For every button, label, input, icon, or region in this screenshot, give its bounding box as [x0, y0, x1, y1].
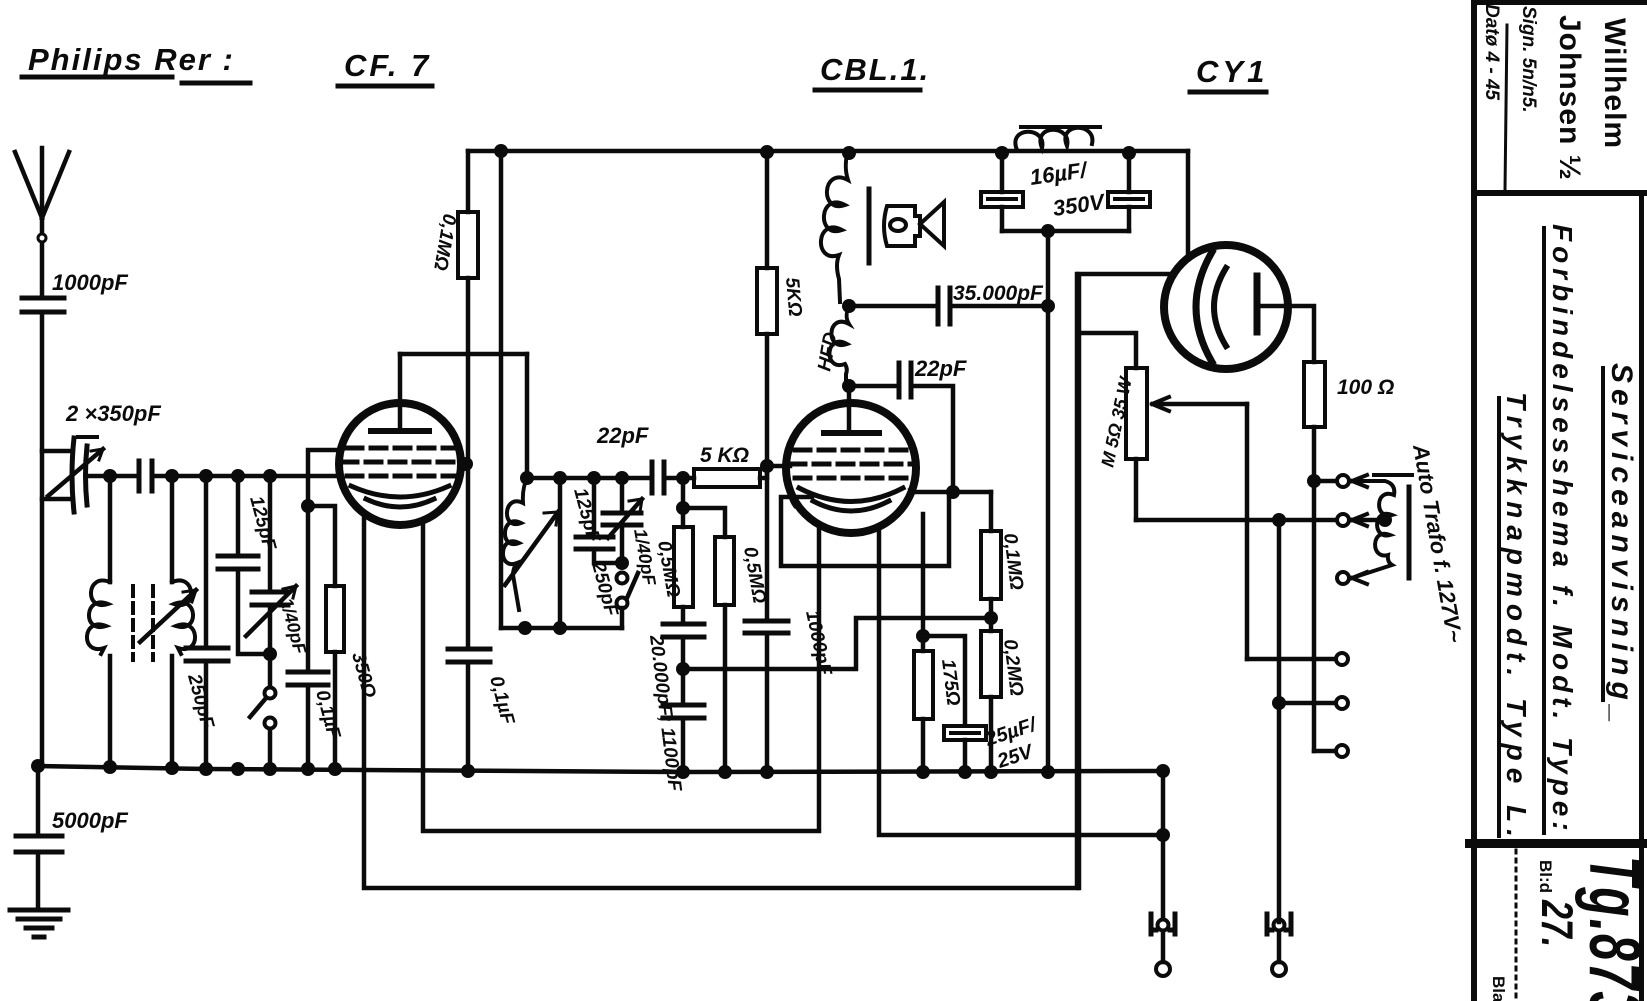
label Philips Rer: [28, 42, 235, 77]
label 2x350pF [65, 401, 161, 426]
node AVC [676, 662, 690, 676]
capacitor 16uF right [1108, 153, 1150, 231]
label CBL1 [820, 52, 930, 87]
coil antenna secondary variable [140, 476, 196, 766]
capacitor 1100pF [663, 705, 704, 771]
text Bla corner [1489, 976, 1508, 1001]
terminal out3 [1336, 745, 1348, 757]
title block divider 1 [1471, 190, 1647, 196]
tube CF7 [339, 403, 461, 525]
text Forbindelsesshema [1547, 224, 1578, 836]
potentiometer 800ohm 35W [1097, 368, 1147, 520]
wire CBL1 cathode [921, 514, 926, 636]
wire chassis to jack left [1161, 771, 1166, 916]
wire CF7 cathode [308, 450, 340, 506]
wire wiper to terminal [1247, 657, 1335, 662]
underline CF.7 [338, 84, 432, 89]
wire heater CBL1 b [879, 526, 1163, 835]
tube CY1 [1164, 245, 1288, 369]
wire 100ohm to tap [1307, 474, 1335, 488]
underline Serviceanvisning [1601, 368, 1605, 700]
resistor 0,5Mohm first [653, 478, 693, 624]
resistor 5Kohm anode [757, 154, 805, 466]
capacitor 5000pF [16, 766, 128, 908]
antenna [15, 148, 69, 296]
title block frame vertical [1471, 0, 1477, 1001]
terminal tap top [1337, 475, 1349, 487]
svg-text:100 Ω: 100 Ω [1337, 376, 1394, 399]
svg-text:22pF: 22pF [914, 356, 967, 381]
svg-text:1000pF: 1000pF [52, 270, 128, 295]
tube CBL1 [786, 403, 916, 533]
text Wilhelm [1598, 18, 1631, 149]
node speaker tap [842, 299, 856, 313]
title block top edge [1471, 0, 1647, 5]
wire junction down to bus [1046, 231, 1051, 771]
wire AVC zigzag to CBL1 [683, 618, 991, 669]
switch band [250, 654, 276, 766]
node cathode [301, 499, 315, 513]
svg-text:CF. 7: CF. 7 [344, 48, 431, 83]
svg-text:250pF: 250pF [183, 671, 218, 732]
top bus [468, 149, 1188, 154]
resistor 0,2Mohm [981, 618, 1027, 771]
wire heater CF7 a [364, 274, 1077, 888]
svg-text:0,1MΩ: 0,1MΩ [429, 212, 460, 272]
tuning capacitor 2x350pF [42, 437, 103, 512]
node heater return [1156, 828, 1170, 842]
text Tg8731 [1575, 856, 1647, 1001]
svg-text:Auto Trafo f. 127V~: Auto Trafo f. 127V~ [1408, 442, 1468, 645]
node 16uF junction [1041, 224, 1055, 238]
svg-text:Bla: Bla [1489, 976, 1508, 1001]
wire grid into CBL1 [767, 464, 790, 469]
resistor 5Kohm grid [683, 444, 767, 487]
coil antenna primary [87, 476, 110, 766]
coil osc variable [503, 478, 558, 610]
svg-text:Johnsen ½: Johnsen ½ [1553, 15, 1586, 181]
node cathode CBL1 [916, 629, 930, 643]
wire pot bottom [1136, 518, 1336, 523]
wire bus to CY1 anode [1186, 151, 1191, 258]
capacitor 25uF 25V [923, 636, 1041, 773]
capacitor 0,1uF screen [448, 464, 518, 771]
choke HFD [814, 306, 849, 386]
CY1 anode bar [1254, 276, 1261, 332]
choke filter [1015, 127, 1100, 150]
label 16uF 350V [1028, 157, 1108, 221]
node dots osc rail [520, 471, 690, 485]
osc rail [527, 476, 648, 481]
underline Sign [1505, 25, 1507, 190]
underline CBL1 [815, 88, 920, 93]
node dots bottom rail [518, 621, 567, 635]
svg-text:Tg.8731: Tg.8731 [1575, 856, 1647, 1001]
underline Rer [182, 81, 250, 86]
capacitor 16uF left [981, 153, 1023, 231]
ground bus [38, 766, 1163, 772]
pot wiper arrow [1152, 397, 1247, 659]
node CBL1 grid [760, 459, 774, 473]
capacitor 35000pF [849, 282, 1048, 324]
text Johnsen [1553, 15, 1586, 181]
capacitor 250pF osc [576, 478, 622, 620]
svg-text:250pF: 250pF [587, 559, 622, 620]
terminal out2 [1336, 697, 1348, 709]
wire 100ohm line down [1314, 481, 1335, 751]
underline CY1 [1190, 90, 1266, 95]
svg-text:175Ω: 175Ω [937, 658, 964, 707]
node anode 22pF [946, 485, 960, 499]
svg-text:M 5Ω 35 W: M 5Ω 35 W [1097, 374, 1136, 469]
wire to osc rail [525, 354, 530, 478]
svg-text:0,1MΩ: 0,1MΩ [999, 532, 1027, 591]
node 0,2M top [984, 611, 998, 625]
CY1 filament arcs [1196, 252, 1212, 362]
wire antenna to tuning cap [40, 312, 45, 766]
node dot 125pF/switch [263, 647, 277, 661]
jack left [1151, 914, 1175, 976]
terminal tap mid [1337, 514, 1349, 526]
wire 16uF bottoms [1002, 229, 1129, 234]
text 27 [1532, 899, 1581, 947]
label CF.7 [344, 48, 431, 83]
svg-text:Serviceanvisning_: Serviceanvisning_ [1605, 363, 1638, 728]
CBL1 cathode arcs [799, 488, 903, 502]
node 35000pF junction [1041, 299, 1055, 313]
wire grid line CF7 cont [152, 474, 339, 479]
node dots tap line [1272, 513, 1286, 527]
svg-text:16µF/: 16µF/ [1028, 157, 1090, 190]
capacitor 1000pF CBL1 grid [745, 466, 836, 771]
resistor 0,1Mohm CF7 [429, 151, 478, 464]
svg-text:125pF: 125pF [245, 494, 280, 554]
text Dato [1481, 4, 1502, 101]
core dashed [133, 586, 153, 660]
wire CBL1 anode right [912, 490, 991, 495]
CBL1 top cap riser [847, 386, 852, 433]
svg-text:5 KΩ: 5 KΩ [700, 444, 749, 467]
svg-text:0,1µF: 0,1µF [311, 688, 344, 742]
svg-text:5KΩ: 5KΩ [781, 277, 805, 318]
resistor 0,1Mohm CBL1 [981, 492, 1027, 618]
underline Forbindelsesshema [1542, 228, 1546, 833]
jack right [1267, 914, 1291, 976]
CF7 top cap bar [371, 428, 429, 434]
wire heater CF7 b [423, 520, 819, 831]
trimmer 1/40pF [246, 476, 310, 657]
CF7 cathode arcs [351, 486, 449, 497]
text Sign [1518, 6, 1539, 113]
svg-text:0,1µF: 0,1µF [485, 674, 518, 728]
svg-text:Datø 4 - 45: Datø 4 - 45 [1481, 4, 1502, 101]
svg-text:1/40pF: 1/40pF [276, 596, 310, 657]
terminal tap bottom [1337, 572, 1349, 584]
svg-text:Forbindelsesshema f. Modt. Typ: Forbindelsesshema f. Modt. Type: [1547, 224, 1578, 836]
title block divider 2 [1465, 839, 1647, 848]
wire U loop cathode [781, 492, 949, 566]
wire grid line CF7 [90, 474, 136, 479]
text Trykknapmodt [1501, 392, 1532, 844]
autotransformer coil [1352, 475, 1412, 584]
text Serviceanvisning [1605, 363, 1638, 728]
label 22pF grid [596, 423, 649, 448]
svg-text:Willhelm: Willhelm [1598, 18, 1631, 149]
label Auto Trafo [1408, 442, 1468, 645]
osc bottom rail [501, 626, 622, 631]
svg-text:2 ×350pF: 2 ×350pF [65, 401, 161, 426]
resistor 350ohm [326, 586, 380, 766]
resistor 175ohm [914, 636, 964, 771]
trimmer osc [603, 478, 660, 588]
wire tap line down [1272, 520, 1335, 922]
capacitor 20000pF [645, 624, 704, 794]
node CF7 screen [459, 457, 473, 471]
svg-text:Trykknapmodt. Type L.: Trykknapmodt. Type L. [1501, 392, 1532, 844]
wire cathode to 350ohm [308, 506, 335, 586]
svg-text:CBL.1.: CBL.1. [820, 52, 930, 87]
svg-text:22pF: 22pF [596, 423, 649, 448]
node dots top bus [494, 144, 1136, 160]
CBL1 grid dashes [790, 450, 913, 478]
svg-text:350V: 350V [1051, 189, 1108, 221]
speaker [884, 202, 944, 246]
underline Philips [22, 75, 172, 80]
wire CY1 anode out [1259, 306, 1314, 362]
capacitor 1000pF antenna [22, 270, 128, 312]
capacitor 125pF [218, 476, 280, 654]
CBL1 left tick [791, 490, 796, 506]
svg-text:0,2MΩ: 0,2MΩ [999, 638, 1027, 697]
svg-text:Philips Rer :: Philips Rer : [28, 42, 235, 77]
text Blad [1536, 860, 1555, 893]
svg-text:Bl:d: Bl:d [1536, 860, 1555, 893]
CF7 top cap riser [398, 354, 403, 431]
CF7 grid dashes [342, 448, 458, 476]
capacitor 22pF grid [652, 462, 683, 493]
ground [10, 910, 68, 937]
terminal out1 [1336, 653, 1348, 665]
wire top cap horizontal [400, 352, 527, 357]
speaker output transformer coil [821, 154, 869, 302]
resistor 100ohm [1304, 362, 1394, 481]
node CBL1 top [842, 379, 856, 393]
label CY1 [1196, 54, 1268, 89]
capacitor 250pF [183, 476, 228, 766]
capacitor 22pF anode [849, 356, 967, 492]
dotted divider bottom [1515, 850, 1518, 1001]
wire osc tap [558, 478, 563, 627]
svg-text:5000pF: 5000pF [52, 808, 128, 833]
wire cathode to pot [1079, 333, 1136, 368]
wire CY1 cathode left [1079, 274, 1175, 888]
node dots grid line [103, 469, 277, 483]
resistor 0,5Mohm second [683, 508, 770, 771]
svg-text:CY1: CY1 [1196, 54, 1268, 89]
node trimmer switch [615, 556, 629, 570]
svg-text:35.000pF: 35.000pF [953, 282, 1044, 305]
CBL1 top cap bar [824, 430, 879, 436]
capacitor series antenna [139, 461, 152, 491]
label 125pF osc [569, 486, 604, 546]
node dots ground bus [31, 759, 1170, 779]
svg-text:Sign. 5n/n5.: Sign. 5n/n5. [1518, 6, 1539, 113]
wire bus to coil box left [499, 151, 504, 628]
capacitor 0,1uF cathode [288, 506, 344, 766]
title block right edge [1639, 196, 1644, 1001]
underline Trykknapmodt [1497, 398, 1501, 836]
switch osc [617, 573, 639, 629]
CBL1 right tick [906, 490, 911, 506]
